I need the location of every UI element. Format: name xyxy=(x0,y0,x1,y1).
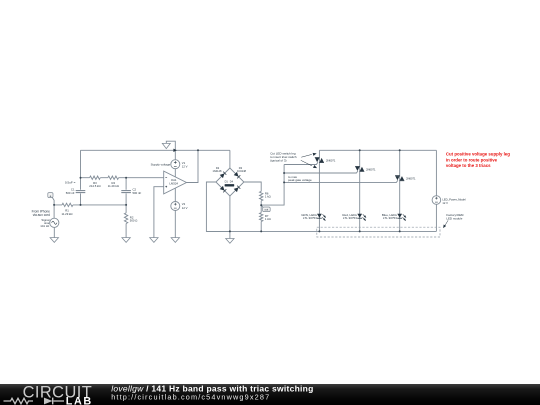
supply flag arrow xyxy=(162,141,175,160)
node a flag xyxy=(48,193,54,205)
diode bridge outline xyxy=(216,168,244,196)
svg-text:11.29 kΩ: 11.29 kΩ xyxy=(61,212,72,216)
svg-text:11.29 kΩ: 11.29 kΩ xyxy=(108,184,119,188)
triac Q1 2N6071 xyxy=(315,158,324,163)
svg-text:500 nF: 500 nF xyxy=(66,191,75,195)
callout arrow: to rail above triac xyxy=(301,152,317,157)
wire: C2 vertical branch xyxy=(125,178,127,205)
node out flag xyxy=(261,205,270,212)
svg-text:214.5 kΩ: 214.5 kΩ xyxy=(89,184,100,188)
label: Supply voltage xyxy=(151,163,171,167)
junction dots xyxy=(53,149,401,232)
diode D3 xyxy=(234,166,247,178)
callout arrow: to gate below triac xyxy=(301,160,318,169)
wire: gate branch to Q2 xyxy=(284,171,358,173)
label: V2 value xyxy=(182,202,188,210)
diode D1 xyxy=(220,181,229,193)
svg-text:1 kΩ: 1 kΩ xyxy=(265,217,271,221)
wire: LED power source to bottom return xyxy=(435,204,437,231)
resistor R3 xyxy=(89,176,100,188)
svg-text:(typical of 3): (typical of 3) xyxy=(270,159,286,163)
triac Q2 2N6071 xyxy=(355,166,364,171)
wire: filter middle rail to op-amp inverting input xyxy=(81,177,164,179)
svg-text:1N4148: 1N4148 xyxy=(237,169,247,173)
ground (V2) xyxy=(171,238,179,243)
svg-text:12 V: 12 V xyxy=(182,206,188,210)
wire: op-amp V- pin to V2 xyxy=(174,188,176,201)
wire: non-inverting input to ground xyxy=(154,187,164,238)
factory LED module dashed box xyxy=(317,227,440,237)
wire: rail 2 xyxy=(359,150,361,231)
wire: V2 to ground xyxy=(174,211,176,238)
wire: gate branch to Q1 xyxy=(284,162,318,164)
ground (op-amp + input) xyxy=(150,238,158,243)
svg-text:Cut positive voltage supply le: Cut positive voltage supply leg xyxy=(446,152,510,157)
wire: source to input node xyxy=(53,205,55,218)
wire: rail 1 xyxy=(318,150,320,231)
label: bridge part numbers (highlighted) xyxy=(225,184,235,186)
wire: gate branch to Q3 xyxy=(284,180,398,182)
triac Q3 2N6071 xyxy=(395,176,404,181)
LED D5 (green) xyxy=(317,214,327,222)
svg-text:2N6071: 2N6071 xyxy=(406,177,416,181)
label: factory module xyxy=(446,213,464,221)
svg-text:LED_Power_Model: LED_Power_Model xyxy=(442,198,466,202)
voltage source V1 xyxy=(171,160,180,169)
label: red LED xyxy=(342,213,357,220)
svg-text:out: out xyxy=(265,208,269,212)
LED D7 (blue) xyxy=(397,214,407,222)
wire: input bottom rail xyxy=(54,204,126,206)
op-amp OA1 LM324 xyxy=(164,171,187,194)
wire: bridge bottom vertex down xyxy=(229,196,231,239)
LED D6 (red) xyxy=(357,214,367,222)
label: gate note xyxy=(288,175,312,182)
ground (R2) xyxy=(122,238,130,243)
wire: feedback top rail (op-amp output bus) xyxy=(81,149,230,151)
svg-text:http://circuitlab.com/c54vnwwg: http://circuitlab.com/c54vnwwg9x287 xyxy=(111,392,270,401)
svg-text:500 nF: 500 nF xyxy=(133,191,142,195)
svg-text:LTL 30753: LTL 30753 xyxy=(303,216,317,220)
resistor R7 xyxy=(260,213,271,222)
svg-text:LM324: LM324 xyxy=(169,182,178,186)
label: source annotation xyxy=(32,210,50,217)
wire: V1 to op-amp V+ pin xyxy=(174,169,176,177)
svg-text:Supply voltage: Supply voltage xyxy=(151,163,171,167)
wire: bridge top feed xyxy=(229,150,231,168)
svg-text:LED module: LED module xyxy=(446,216,462,220)
label: Q3 value xyxy=(406,177,416,181)
svg-text:12 V: 12 V xyxy=(442,201,448,205)
label: Q1 value xyxy=(326,158,336,162)
capacitor C2 xyxy=(121,188,141,195)
resistor R6 xyxy=(260,191,271,200)
svg-text:0.5uF =: 0.5uF = xyxy=(65,181,76,185)
label: Q2 value xyxy=(366,167,376,171)
diode D2 xyxy=(212,166,226,178)
svg-text:12 V: 12 V xyxy=(182,165,188,169)
label: source value xyxy=(40,218,50,228)
resistor R1 xyxy=(61,203,72,216)
capacitor C1 xyxy=(66,188,86,195)
note: cut LED switch leg xyxy=(270,151,297,162)
svg-text:in order to route positive: in order to route positive xyxy=(446,157,498,162)
wire: R7 to bottom return xyxy=(260,222,262,232)
resistor R4 xyxy=(108,176,119,188)
label: 0.5uF note xyxy=(65,181,76,185)
wire: bottom return rail xyxy=(206,230,436,232)
label: green LED xyxy=(301,213,317,220)
callout arrow: factory module xyxy=(442,220,448,229)
wire: supply bus down to LED power source xyxy=(435,150,437,195)
svg-text:500 Ω: 500 Ω xyxy=(130,219,138,223)
wire: source to ground xyxy=(53,227,55,237)
svg-text:LTL 30753: LTL 30753 xyxy=(343,216,357,220)
svg-text:2N6071: 2N6071 xyxy=(366,167,376,171)
wire: out node to gate bus xyxy=(261,165,284,206)
label: blue LED xyxy=(382,213,398,220)
svg-text:via aux cord: via aux cord xyxy=(33,213,50,217)
wire: op-amp output up to feedback rail xyxy=(187,150,199,182)
svg-text:LTL 30753: LTL 30753 xyxy=(383,216,397,220)
label: LED power value xyxy=(442,198,466,205)
svg-text:peak gate voltage: peak gate voltage xyxy=(288,178,312,182)
svg-text:voltage to the 3 triacs: voltage to the 3 triacs xyxy=(446,163,491,168)
svg-text:141 Hz: 141 Hz xyxy=(40,224,50,228)
voltage source V2 xyxy=(171,202,180,211)
svg-text:2N6071: 2N6071 xyxy=(326,158,336,162)
wire: divider middle xyxy=(260,201,262,213)
diode D4 xyxy=(230,181,241,192)
junction: supply crossing marker xyxy=(173,149,177,152)
svg-text:1 kΩ: 1 kΩ xyxy=(265,195,271,199)
wire: bridge left vertex return loop xyxy=(206,182,230,231)
wire: LED positive supply bus xyxy=(319,149,436,151)
wire: bridge right vertex to divider xyxy=(244,182,261,191)
wire: left feedback vertical (through C1) xyxy=(80,150,82,205)
resistor R2 xyxy=(124,205,137,238)
ground (bridge) xyxy=(226,239,234,244)
ground (source) xyxy=(50,238,58,243)
footer logo wire glyph xyxy=(4,398,65,405)
source V3 sine 141 Hz xyxy=(50,218,59,227)
svg-text:LAB: LAB xyxy=(66,395,93,405)
wire: rail 3 xyxy=(399,150,401,231)
note: cut positive voltage (red) xyxy=(446,152,510,168)
voltage source LED_Power_Model xyxy=(432,196,441,205)
label: V1 value xyxy=(182,161,188,169)
svg-text:1N4148: 1N4148 xyxy=(212,169,222,173)
